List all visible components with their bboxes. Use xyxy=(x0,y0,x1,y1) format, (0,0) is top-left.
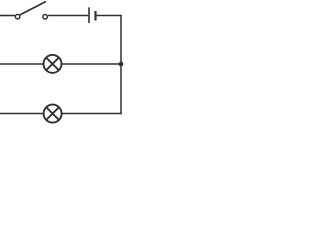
lamp L2 xyxy=(44,105,62,123)
wire right bus top segment xyxy=(120,15,122,64)
wire left to lamp 1 xyxy=(0,63,43,65)
switch S1 lever (open) xyxy=(20,2,46,15)
wire lamp 2 to bottom right corner xyxy=(62,113,122,115)
wire left to switch xyxy=(0,15,15,17)
junction node xyxy=(119,62,124,67)
wire switch to battery xyxy=(48,15,88,17)
wire lamp 1 to junction xyxy=(61,63,120,65)
battery B1 xyxy=(89,7,96,23)
switch S1 right contact xyxy=(43,14,48,19)
wire left to lamp 2 xyxy=(0,113,43,115)
switch S1 left contact xyxy=(15,14,20,19)
wire right bus bottom segment xyxy=(120,64,122,114)
wire battery to top right corner xyxy=(97,15,122,17)
battery negative plate xyxy=(94,11,96,21)
battery positive plate xyxy=(88,7,90,23)
lamp L1 xyxy=(44,55,62,73)
